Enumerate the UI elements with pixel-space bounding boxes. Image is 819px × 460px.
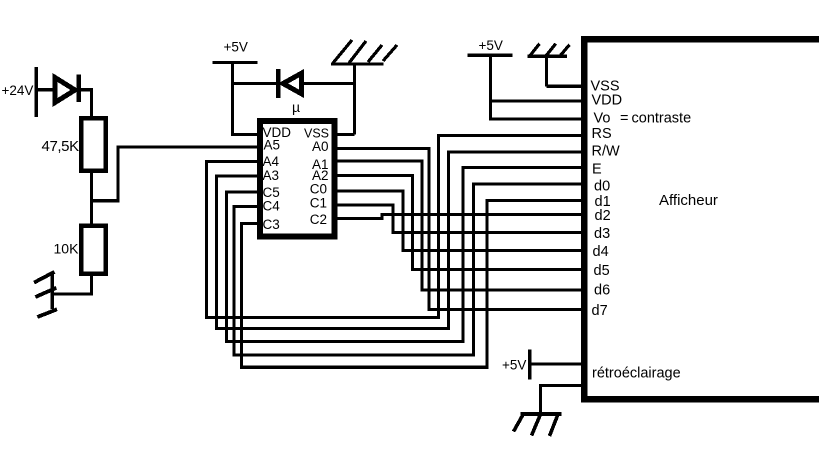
+5V terminal bar (backlight) (528, 350, 532, 380)
svg-text:VDD: VDD (592, 93, 623, 109)
svg-text:+5V: +5V (224, 40, 248, 55)
wire uC A3 to Afficheur R/W (217, 152, 585, 329)
svg-text:d4: d4 (593, 244, 609, 260)
ground chassis (backlight) (514, 414, 562, 436)
svg-text:Afficheur: Afficheur (659, 192, 718, 209)
wire node A to uC pin A5 (92, 147, 259, 201)
wire uC A4 to Afficheur RS (207, 136, 585, 318)
wire +5V rail to Afficheur VDD (491, 55, 585, 101)
svg-text:C0: C0 (310, 182, 327, 197)
wire uC C5 to Afficheur E (227, 168, 585, 342)
svg-text:A3: A3 (263, 168, 280, 183)
display box Afficheur (584, 39, 819, 399)
svg-text:R/W: R/W (592, 144, 621, 160)
+5V rail bar (uC) (213, 61, 258, 64)
svg-text:A0: A0 (312, 139, 329, 154)
svg-text:d2: d2 (595, 208, 611, 224)
diode D2 (protection) (278, 69, 301, 98)
svg-text:E: E (592, 162, 602, 178)
wire D1 to resistor R1 (79, 90, 92, 118)
svg-text:µ: µ (292, 99, 300, 115)
wire ground stem to Afficheur VSS (547, 85, 585, 88)
wire uC C3 to Afficheur d1 (242, 201, 585, 368)
wire uC A1 to Afficheur d6 (333, 161, 584, 290)
svg-text:+5V: +5V (502, 358, 526, 373)
microcontroller U1 box (260, 121, 334, 237)
svg-text:d5: d5 (594, 263, 610, 279)
svg-text:d0: d0 (594, 179, 610, 195)
wire node A to resistor R2 (90, 200, 93, 227)
wire +5V rail to diode U cathode (233, 82, 279, 85)
wire uC C4 to Afficheur d0 (234, 184, 584, 355)
svg-text:C2: C2 (310, 212, 327, 227)
wire ground stem to uC pin VSS (333, 133, 355, 136)
svg-text:d6: d6 (594, 283, 610, 299)
svg-text:d7: d7 (592, 303, 608, 319)
wire uC C2 to Afficheur d2 (333, 215, 584, 219)
wire +5V rail to uC pin VDD (233, 63, 261, 135)
wire uC A2 to Afficheur d5 (333, 176, 584, 270)
resistor R2 10K (54, 226, 106, 274)
svg-text:C1: C1 (310, 196, 327, 211)
svg-text:RS: RS (592, 126, 612, 142)
svg-text:Vo: Vo (594, 111, 611, 127)
svg-text:+5V: +5V (479, 38, 503, 53)
ground chassis bottom-left (34, 272, 57, 318)
svg-text:+24V: +24V (2, 83, 34, 98)
wire retroeclairage pin to ground (541, 386, 585, 416)
wire +5V to retroeclairage pin (530, 362, 585, 365)
ground chassis (Afficheur VSS) (528, 44, 570, 87)
wire diode D2 to ground stem (303, 82, 355, 85)
wire R1 to node A (90, 171, 93, 202)
+5V rail bar (Afficheur) (468, 54, 513, 57)
svg-text:C4: C4 (263, 199, 281, 214)
wire R2 to ground (52, 274, 91, 295)
svg-text:A4: A4 (263, 154, 280, 169)
svg-text:47,5K: 47,5K (42, 138, 80, 155)
wire uC C0 to Afficheur d4 (333, 191, 584, 251)
svg-text:C3: C3 (263, 217, 280, 232)
ground chassis top (uC VSS) (331, 40, 397, 135)
diode D1 (55, 75, 79, 103)
svg-text:contraste: contraste (632, 111, 692, 127)
svg-text:10K: 10K (54, 241, 80, 257)
wire +24V to diode D1 (36, 88, 55, 91)
svg-text:d3: d3 (594, 226, 610, 242)
resistor R1 47,5K (42, 118, 106, 171)
+24V terminal bar (34, 67, 38, 117)
wire uC A0 to Afficheur d7 (333, 149, 584, 310)
wire +5V rail to Afficheur Vo (491, 101, 585, 119)
wire uC C1 to Afficheur d3 (333, 205, 584, 233)
svg-text:rétroéclairage: rétroéclairage (592, 366, 681, 382)
svg-text:=: = (620, 111, 628, 127)
svg-text:A5: A5 (264, 138, 281, 153)
